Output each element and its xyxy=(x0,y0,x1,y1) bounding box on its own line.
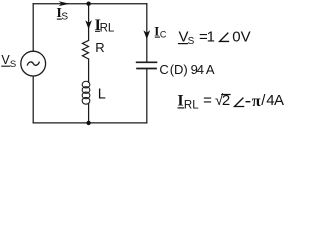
label Vs (source) xyxy=(1,53,16,70)
wire right vertical lower xyxy=(146,69,148,123)
wire left vertical upper xyxy=(32,4,34,52)
minus sign xyxy=(246,101,251,103)
svg-text:R: R xyxy=(95,40,104,55)
equation Irl = sqrt2 angle -pi/4 A xyxy=(177,92,284,111)
svg-text:1: 1 xyxy=(207,28,215,45)
svg-text:S: S xyxy=(188,36,195,47)
source Vs xyxy=(21,51,46,76)
wire bottom horizontal xyxy=(33,122,147,124)
svg-text:RL: RL xyxy=(184,99,199,111)
label C and text (D) 94 A xyxy=(159,62,215,77)
svg-text:A: A xyxy=(206,62,215,77)
angle symbol xyxy=(220,33,230,42)
svg-text:4: 4 xyxy=(197,62,204,77)
svg-text:C: C xyxy=(159,62,168,77)
svg-text:=: = xyxy=(203,92,212,109)
equation Vs = 1 angle 0V xyxy=(178,28,251,47)
junction node top xyxy=(86,2,90,6)
arrow Irl xyxy=(85,20,92,29)
svg-text:I: I xyxy=(154,24,159,39)
sine symbol xyxy=(27,62,39,66)
junction node bottom xyxy=(86,121,90,125)
svg-text:A: A xyxy=(274,92,284,109)
wire right vertical upper xyxy=(146,4,148,62)
svg-text:L: L xyxy=(98,86,106,102)
svg-text:(D): (D) xyxy=(170,62,188,77)
label Is xyxy=(56,6,68,23)
svg-text:0V: 0V xyxy=(232,28,250,45)
wire middle branch between R and L xyxy=(88,59,90,82)
wire top horizontal xyxy=(33,3,147,5)
svg-text:C: C xyxy=(160,30,167,40)
svg-text:π: π xyxy=(252,93,261,110)
svg-text:S: S xyxy=(10,59,16,70)
resistor R xyxy=(82,40,88,59)
capacitor C plates xyxy=(136,62,158,68)
wire middle branch lower xyxy=(88,103,90,123)
svg-text:S: S xyxy=(61,12,68,23)
arrow Is xyxy=(59,1,70,6)
svg-text:I: I xyxy=(177,93,183,110)
angle symbol xyxy=(235,98,245,107)
wire middle branch upper xyxy=(88,4,90,41)
wire left vertical lower xyxy=(32,76,34,123)
svg-text:RL: RL xyxy=(100,23,115,35)
label Irl (on branch) xyxy=(95,17,115,35)
label Ic (on branch) xyxy=(154,24,167,40)
inductor L xyxy=(82,81,90,104)
arrow Ic xyxy=(143,30,150,39)
